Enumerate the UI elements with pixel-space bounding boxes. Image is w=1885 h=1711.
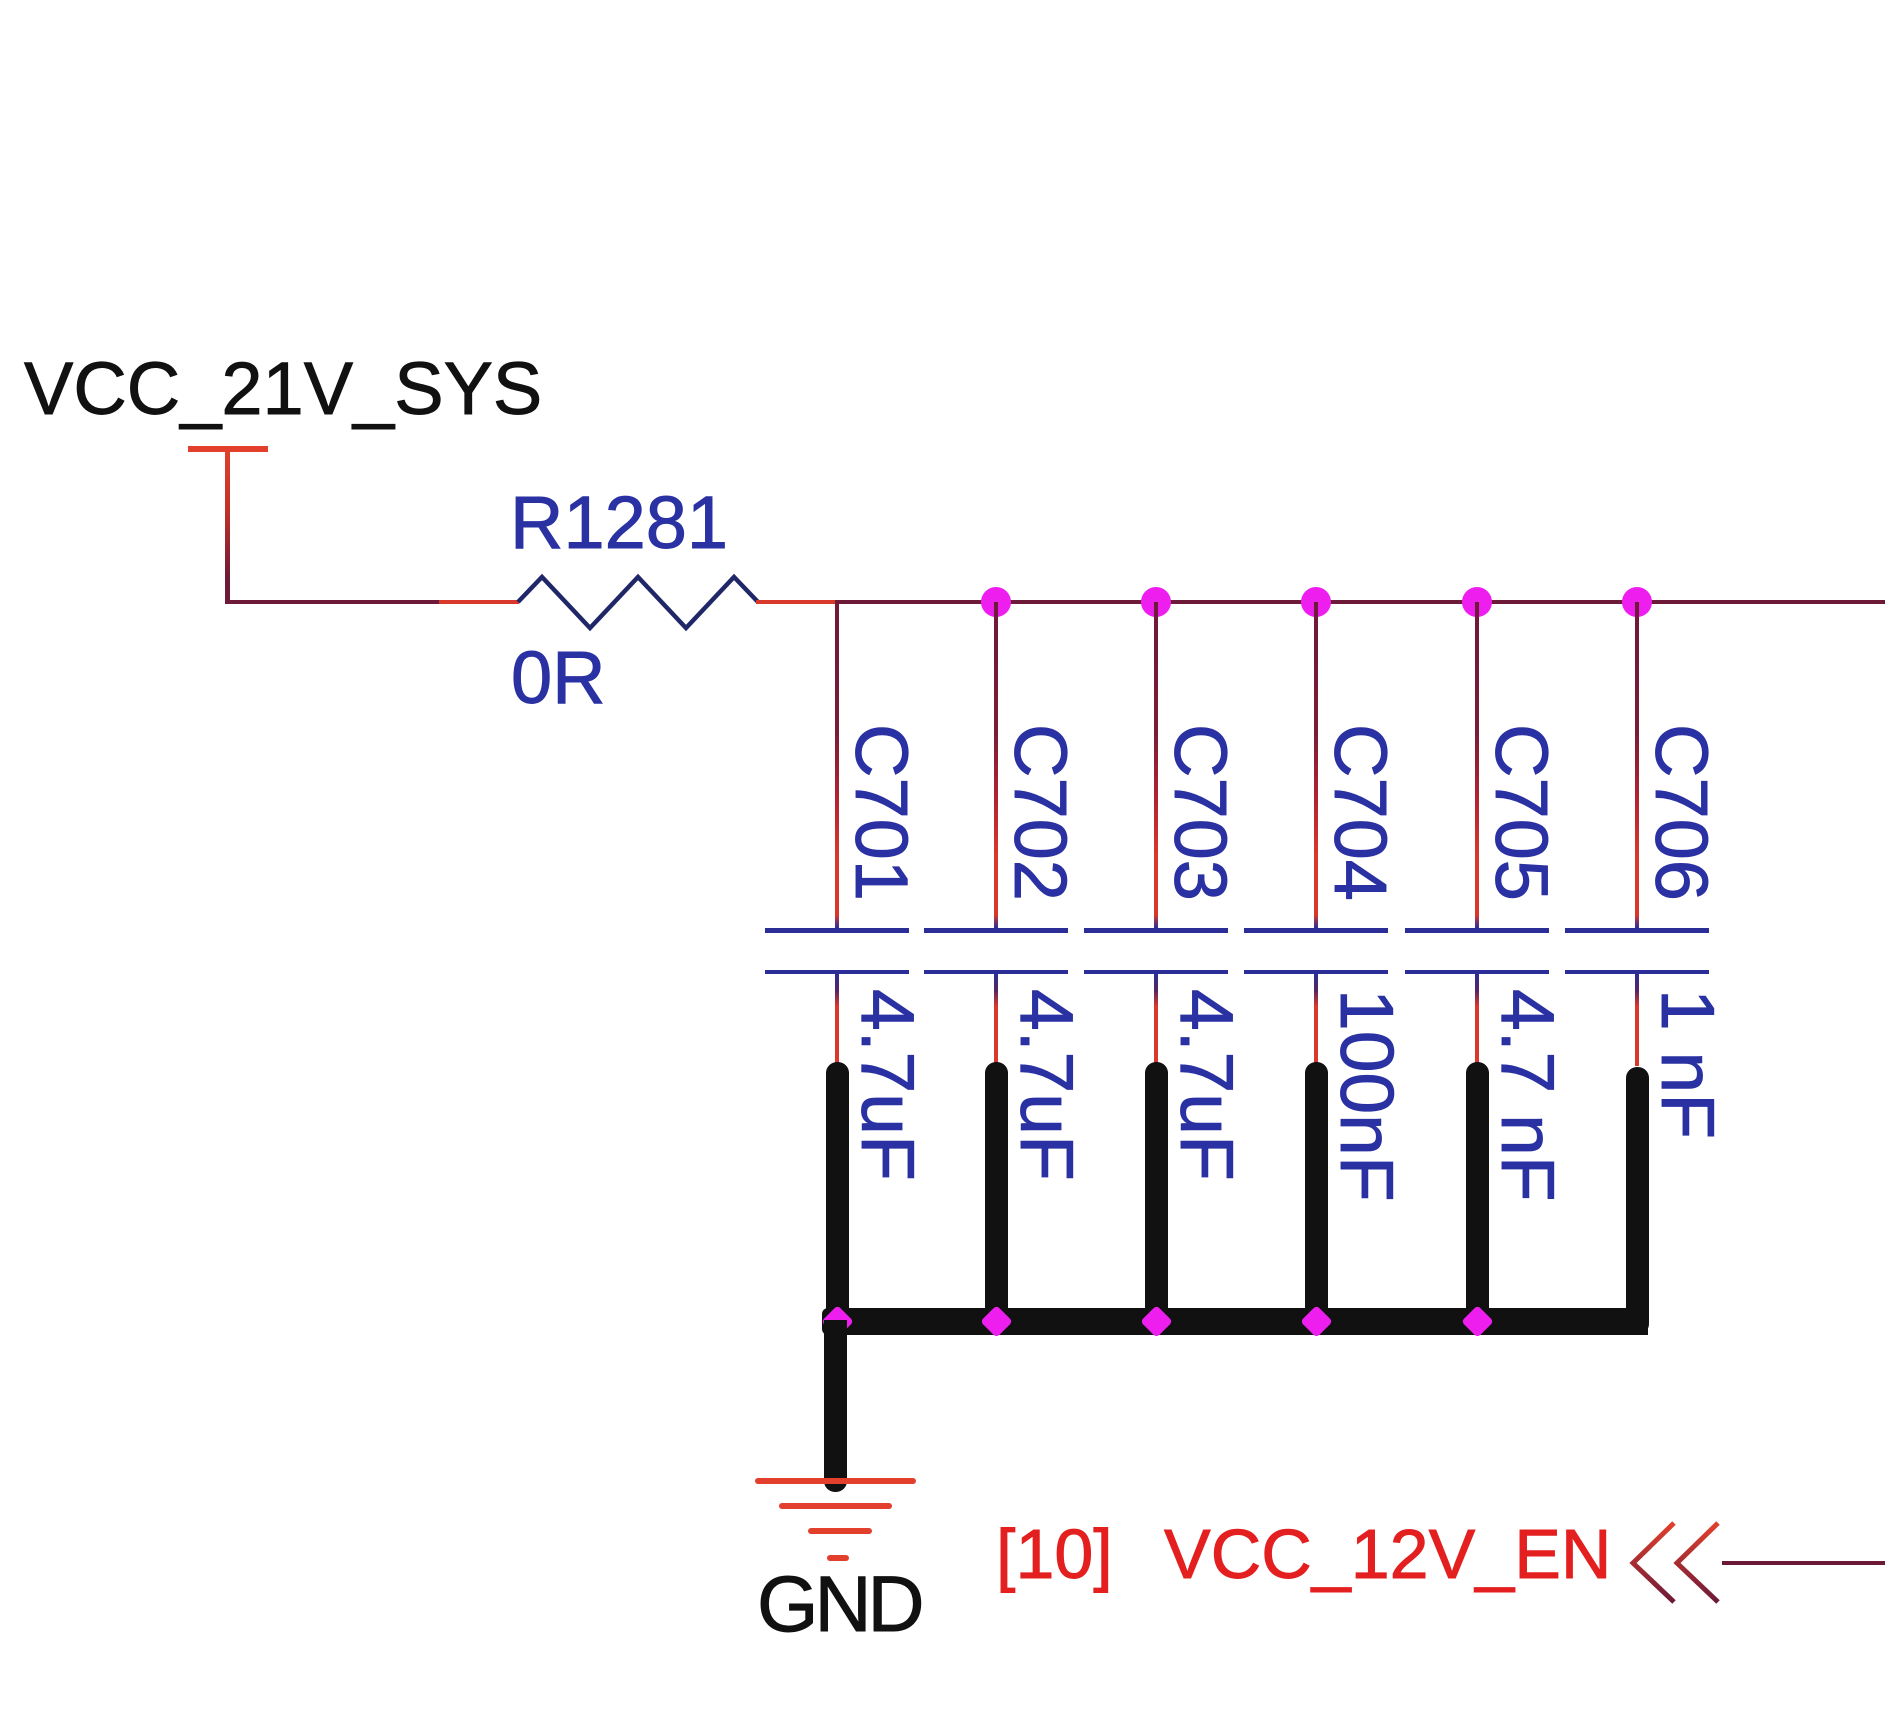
node junction dot top bus at C705 [1462, 587, 1492, 617]
capacitor C702 top plate [924, 928, 1068, 933]
net label VCC_12V_EN [1164, 1519, 1611, 1589]
node junction dot top bus at C702 [981, 587, 1011, 617]
wire C704 lower lead (red) [1314, 974, 1318, 1066]
wire C703 lower lead (red) [1154, 974, 1158, 1066]
capacitor C705 value 4.7 nF [1490, 989, 1565, 1202]
resistor R1281 [510, 570, 766, 636]
node junction dot ground bus at C703 [1140, 1305, 1173, 1338]
off-page reference label [10] [996, 1519, 1113, 1589]
wire C703 ground lead (thick black) [1145, 1062, 1168, 1322]
ground symbol [755, 1478, 916, 1484]
capacitor C703 value 4.7uF [1169, 989, 1244, 1181]
capacitor C701 reference label [844, 724, 918, 901]
capacitor C703 bottom plate [1084, 970, 1228, 975]
capacitor C706 value 1 nF [1650, 989, 1725, 1139]
wire C701 lower lead (red) [835, 974, 839, 1066]
wire C706 upper lead (maroon to red) [1635, 602, 1639, 928]
wire from power stem corner to R1281 (maroon) [225, 600, 439, 604]
capacitor C704 reference label [1323, 724, 1397, 901]
wire C705 lower lead (red) [1475, 974, 1479, 1066]
wire C703 upper lead (maroon to red) [1154, 602, 1158, 928]
node junction dot top bus at C704 [1301, 587, 1331, 617]
wire C702 ground lead (thick black) [985, 1062, 1008, 1322]
wire C702 upper lead (maroon to red) [994, 602, 998, 928]
off-page connector chevrons [1626, 1516, 1726, 1610]
wire power stem (red to maroon) [225, 449, 230, 602]
wire C704 ground lead (thick black) [1305, 1062, 1328, 1322]
capacitor C706 bottom plate [1565, 970, 1709, 975]
ground bus (thick black) [822, 1308, 1648, 1335]
node junction dot ground bus at C702 [980, 1305, 1013, 1338]
wire C704 upper lead (maroon to red) [1314, 602, 1318, 928]
wire VCC_12V_EN to right edge [1722, 1561, 1885, 1565]
capacitor C704 bottom plate [1244, 970, 1388, 975]
resistor R1281 reference label [510, 486, 728, 560]
resistor R1281 value 0R [511, 641, 606, 715]
wire C701 upper lead (maroon to red) [835, 602, 839, 928]
wire C706 lower lead (red) [1635, 974, 1639, 1066]
capacitor C706 reference label [1644, 724, 1718, 901]
wire C702 lower lead (red) [994, 974, 998, 1066]
capacitor C703 reference label [1163, 724, 1237, 901]
wire red segment right of R1281 [756, 600, 837, 604]
capacitor C701 top plate [765, 928, 909, 933]
wire C705 ground lead (thick black) [1466, 1062, 1489, 1322]
capacitor C704 top plate [1244, 928, 1388, 933]
ground label GND [757, 1564, 921, 1643]
wire C705 upper lead (maroon to red) [1475, 602, 1479, 928]
node junction dot ground bus at C705 [1461, 1305, 1494, 1338]
capacitor C702 value 4.7uF [1009, 989, 1084, 1181]
capacitor C701 value 4.7uF [850, 989, 925, 1181]
node junction dot top bus at C706 [1622, 587, 1652, 617]
capacitor C702 reference label [1003, 724, 1077, 901]
wire ground stem (thick black) [824, 1320, 847, 1492]
capacitor C705 top plate [1405, 928, 1549, 933]
capacitor C703 top plate [1084, 928, 1228, 933]
wire red segment left of R1281 [439, 600, 519, 604]
capacitor C705 bottom plate [1405, 970, 1549, 975]
net label VCC_21V_SYS [24, 352, 542, 426]
power symbol VCC_21V_SYS [188, 446, 268, 452]
node junction dot top bus at C703 [1141, 587, 1171, 617]
capacitor C701 bottom plate [765, 970, 909, 975]
capacitor C702 bottom plate [924, 970, 1068, 975]
capacitor C706 top plate [1565, 928, 1709, 933]
capacitor C705 reference label [1484, 724, 1558, 901]
wire C701 ground lead (thick black) [826, 1062, 849, 1322]
node junction dot ground bus at C704 [1300, 1305, 1333, 1338]
capacitor C704 value 100nF [1329, 989, 1404, 1202]
node junction dot ground bus at C701 [821, 1305, 854, 1338]
wire top bus VCC_21V net to right edge [835, 600, 1885, 604]
wire C706 ground lead (thick black, corner into bus) [1626, 1067, 1649, 1334]
